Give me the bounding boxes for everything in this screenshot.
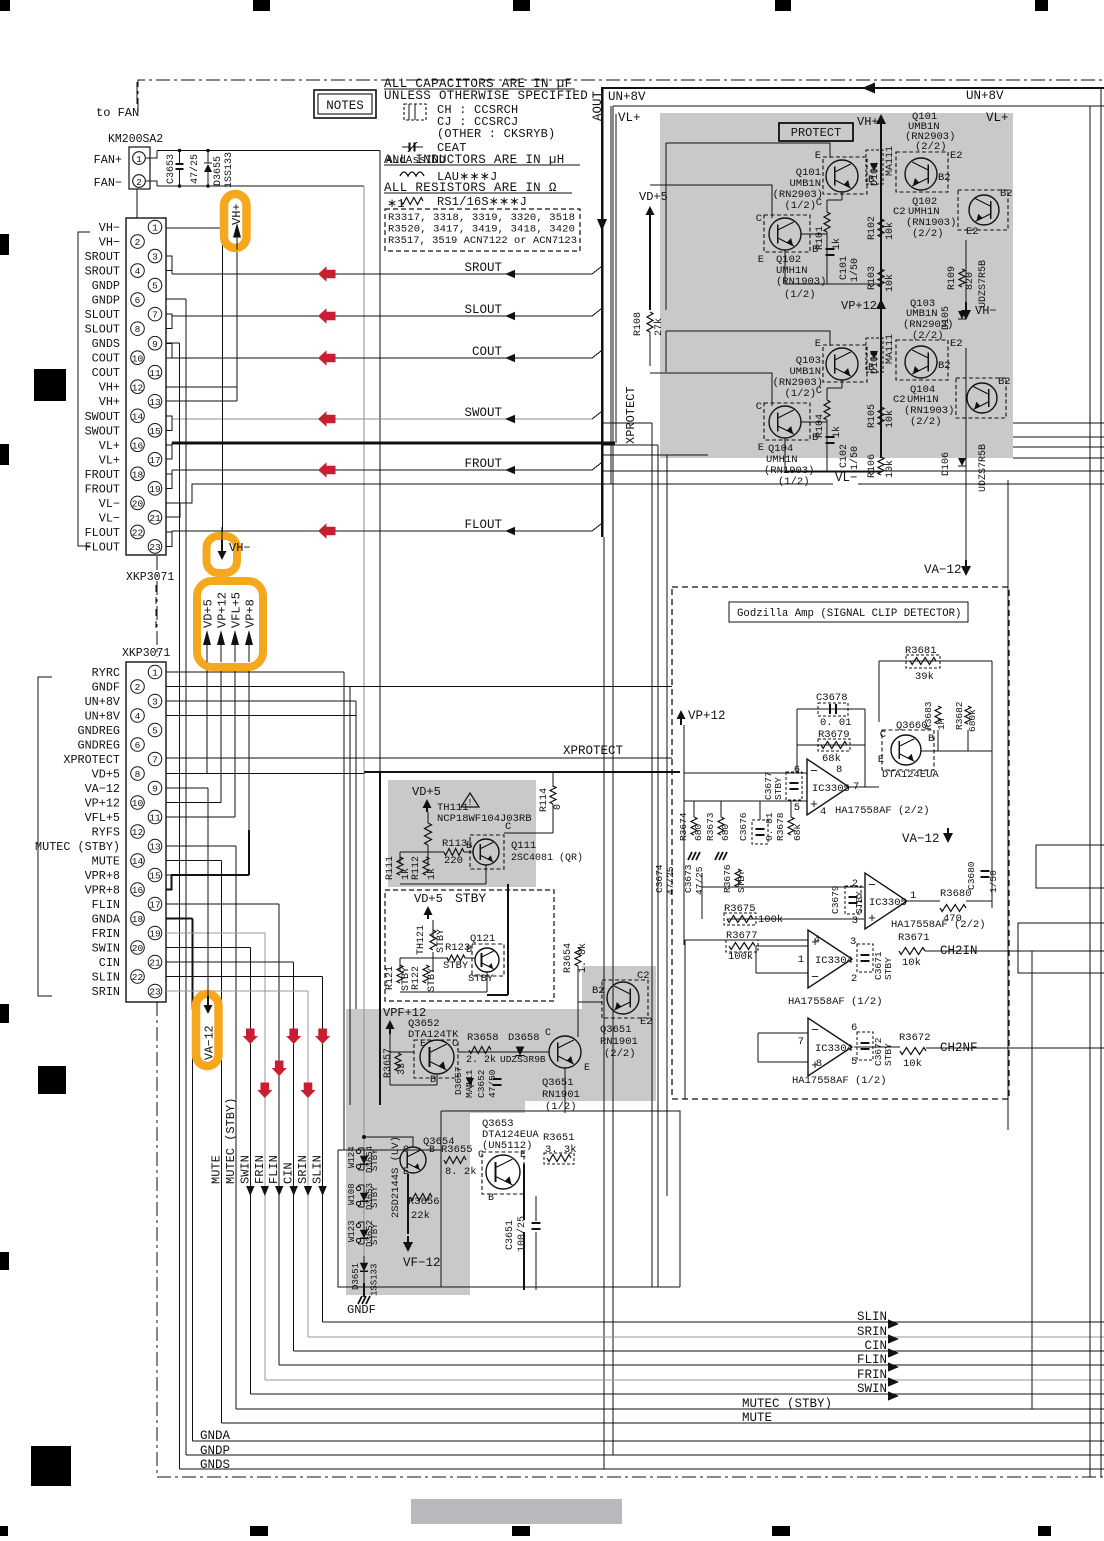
svg-text:R3671: R3671 [898, 932, 930, 944]
svg-text:COUT: COUT [472, 345, 503, 359]
svg-text:FAN+: FAN+ [94, 153, 122, 167]
svg-text:FLIN: FLIN [267, 1155, 281, 1184]
svg-text:STBY: STBY [370, 1149, 380, 1171]
svg-text:VA−12: VA−12 [924, 563, 962, 577]
svg-text:R108: R108 [633, 312, 644, 336]
svg-text:5: 5 [152, 726, 158, 737]
svg-text:GNDS: GNDS [92, 337, 120, 351]
svg-text:−: − [810, 764, 818, 779]
svg-text:NCP18WF104J03RB: NCP18WF104J03RB [437, 813, 532, 825]
svg-text:IC3304: IC3304 [815, 1043, 853, 1055]
bus vertical x615 [615, 114, 617, 443]
svg-text:SWOUT: SWOUT [85, 424, 120, 438]
svg-text:STBY: STBY [468, 973, 494, 985]
svg-text:8: 8 [836, 764, 842, 776]
wire SRIN bottom run [308, 1336, 1104, 1338]
jumper W124 [359, 1147, 365, 1149]
wire FLIN vertical [278, 904, 280, 1365]
wire STBY internals [432, 920, 434, 938]
svg-text:SRIN: SRIN [296, 1155, 310, 1184]
wire SROUT pin stub [166, 256, 172, 274]
svg-text:VFL+5: VFL+5 [230, 592, 244, 628]
svg-text:R3673: R3673 [705, 812, 716, 841]
svg-text:470: 470 [943, 913, 962, 925]
svg-text:PROTECT: PROTECT [791, 126, 841, 140]
transistor Q103 (2/2) [896, 340, 948, 380]
svg-text:2SD2144S (UV): 2SD2144S (UV) [390, 1136, 402, 1218]
gray region protect block [660, 113, 1013, 458]
svg-text:R112: R112 [411, 856, 422, 880]
svg-text:C: C [452, 1039, 458, 1050]
wire vertical to mid block (gray) [363, 186, 365, 772]
svg-text:(2/2): (2/2) [910, 416, 942, 428]
wire SWIN bottom run [250, 1393, 1104, 1395]
svg-text:680k: 680k [967, 709, 978, 732]
svg-text:NOTES: NOTES [326, 99, 364, 113]
svg-text:47/25: 47/25 [189, 154, 201, 184]
wire VL+ row (bold) [172, 442, 615, 445]
svg-text:10k: 10k [884, 274, 896, 292]
svg-text:E2: E2 [950, 150, 963, 162]
svg-text:C: C [505, 821, 511, 833]
svg-text:23: 23 [149, 542, 161, 553]
svg-text:STBY: STBY [370, 1223, 380, 1245]
wire FRIN vertical [264, 933, 266, 1380]
svg-text:HA17558AF (1/2): HA17558AF (1/2) [788, 996, 883, 1008]
svg-text:STBY: STBY [455, 891, 486, 906]
svg-text:680: 680 [693, 824, 704, 841]
wire SWIN vertical [249, 948, 251, 1395]
svg-text:1: 1 [152, 668, 158, 679]
svg-text:VPR+8: VPR+8 [85, 869, 120, 883]
wire CIN vertical [293, 962, 295, 1351]
dashed box godzilla amp [672, 587, 1009, 1099]
svg-text:FRIN: FRIN [253, 1155, 267, 1184]
mute arrows red [243, 1029, 258, 1045]
svg-text:10k: 10k [902, 957, 921, 969]
svg-text:MUTEC (STBY): MUTEC (STBY) [742, 1397, 832, 1411]
svg-text:(OTHER : CKSRYB): (OTHER : CKSRYB) [437, 127, 555, 141]
gray region mid block upper [346, 1009, 656, 1101]
svg-text:STBY: STBY [443, 960, 469, 972]
clip arrow SLOUT (red) [318, 308, 336, 324]
svg-text:GNDREG: GNDREG [78, 724, 120, 738]
svg-text:2: 2 [135, 682, 141, 693]
svg-text:10: 10 [132, 353, 144, 364]
svg-text:STBY: STBY [854, 891, 865, 914]
svg-text:1/50: 1/50 [988, 870, 999, 893]
svg-text:1: 1 [136, 154, 142, 165]
wire COUT row [172, 357, 592, 359]
svg-text:4: 4 [135, 711, 141, 722]
box around Q3654 block [338, 1150, 680, 1287]
svg-text:C3651: C3651 [505, 1220, 516, 1250]
bracket left of XKP3071 [38, 677, 52, 996]
op-amp IC3304 (1/2) upper [808, 930, 852, 988]
svg-text:47/50: 47/50 [487, 1069, 498, 1098]
clip arrow FROUT (red) [318, 462, 336, 478]
border inner top [613, 105, 1104, 107]
wire SWOUT row [172, 418, 592, 420]
wire VH+ bus (bold) [880, 128, 882, 458]
notes capacitor symbol [404, 104, 426, 120]
svg-text:B: B [488, 1193, 494, 1204]
svg-text:17: 17 [149, 900, 160, 911]
svg-text:UDZS7R5B: UDZS7R5B [978, 444, 989, 492]
svg-text:10: 10 [132, 798, 144, 809]
pin 1 VH− [148, 220, 162, 234]
diode D3653 STBY [363, 1185, 365, 1207]
svg-text:VH−: VH− [99, 236, 120, 250]
pin 15 VPR+8 [148, 868, 162, 882]
svg-text:+: + [868, 911, 876, 926]
registration marks (page) [0, 0, 10, 11]
gray region TH111 block [388, 780, 536, 887]
svg-text:SROUT: SROUT [85, 265, 120, 279]
border vertical left outer [603, 537, 605, 1469]
svg-text:2SC4081 (QR): 2SC4081 (QR) [511, 852, 583, 864]
svg-text:HA17558AF (2/2): HA17558AF (2/2) [891, 919, 986, 931]
pin 21 VL− [148, 511, 162, 525]
svg-text:100/25: 100/25 [516, 1216, 528, 1252]
svg-text:MA111: MA111 [885, 334, 896, 364]
svg-text:E: E [758, 254, 764, 266]
op-amp IC3304 (1/2) lower [808, 1018, 852, 1076]
power arrow VF-12 [407, 1174, 409, 1234]
svg-text:GNDA: GNDA [200, 1429, 231, 1443]
svg-text:B: B [430, 1075, 436, 1086]
svg-text:GNDA: GNDA [92, 913, 121, 927]
wire vertical to mid block (black) [379, 151, 381, 773]
svg-text:VA−12: VA−12 [902, 832, 940, 846]
svg-text:VPR+8: VPR+8 [85, 884, 120, 898]
capacitor C3673 47/25 [688, 852, 692, 860]
diode D3654 STBY [363, 1148, 365, 1170]
svg-text:!: ! [467, 798, 472, 808]
svg-text:(1/2): (1/2) [778, 476, 810, 488]
pin 12 VH+ [131, 380, 145, 394]
svg-text:RYFS: RYFS [92, 826, 120, 840]
svg-text:18: 18 [132, 914, 144, 925]
svg-text:10k: 10k [903, 1058, 922, 1070]
svg-text:1/50: 1/50 [849, 258, 861, 282]
wire FLOUT pin stub [166, 531, 172, 532]
pin 12 RYFS [131, 825, 145, 839]
svg-text:11: 11 [149, 813, 161, 824]
svg-text:−: − [868, 878, 876, 893]
svg-text:SLIN: SLIN [92, 971, 120, 985]
svg-text:21: 21 [149, 958, 161, 969]
jumper W108 [359, 1184, 365, 1186]
svg-text:RYRC: RYRC [92, 666, 120, 680]
svg-text:C3676: C3676 [738, 812, 749, 841]
svg-text:39k: 39k [915, 671, 934, 683]
wire SLIN bottom run [323, 1321, 1104, 1323]
svg-text:COUT: COUT [92, 352, 120, 366]
notes ceat symbol [409, 143, 411, 152]
svg-text:21: 21 [149, 513, 161, 524]
svg-text:XPROTECT: XPROTECT [63, 753, 120, 767]
wire SLOUT row [172, 315, 592, 317]
wire protect lower loop [666, 331, 830, 346]
svg-text:VD+5: VD+5 [92, 768, 120, 782]
power arrow VH+ [233, 223, 241, 238]
svg-text:FROUT: FROUT [85, 482, 120, 496]
wire SROUT row [172, 273, 592, 275]
wire SLOUT pin stub [166, 314, 172, 316]
svg-text:GNDS: GNDS [200, 1458, 230, 1472]
clip arrow COUT (red) [318, 350, 336, 366]
pin 22 FLOUT [131, 525, 145, 539]
svg-text:R111: R111 [385, 856, 396, 880]
pin 21 CIN [148, 955, 162, 969]
transistor Q102 (1/2) [764, 215, 810, 252]
transistor Q111 [470, 835, 504, 869]
wire STBY output bold [507, 884, 509, 995]
svg-text:STBY: STBY [736, 870, 747, 893]
pin 13 VH+ [148, 394, 162, 408]
svg-text:FLOUT: FLOUT [85, 526, 120, 540]
svg-text:3: 3 [852, 915, 858, 927]
svg-text:HA17558AF (2/2): HA17558AF (2/2) [835, 805, 930, 817]
svg-text:VH−: VH− [99, 221, 120, 235]
wire protect upper loop [666, 143, 830, 158]
svg-text:27k: 27k [653, 318, 665, 336]
svg-text:R121: R121 [385, 966, 396, 990]
svg-text:STBY: STBY [427, 968, 438, 992]
svg-text:MA111: MA111 [885, 146, 896, 176]
svg-text:+: + [810, 797, 818, 812]
svg-text:VL−: VL− [99, 511, 120, 525]
bus AOUT bold vertical [601, 87, 604, 537]
power arrow VH- down [221, 527, 223, 545]
ground GNDF [363, 1283, 365, 1297]
svg-text:15: 15 [149, 426, 161, 437]
svg-text:D106: D106 [941, 452, 952, 476]
svg-text:D3657: D3657 [453, 1066, 464, 1095]
svg-text:R113: R113 [442, 838, 467, 850]
svg-text:R106: R106 [867, 454, 878, 478]
pin 4 SROUT [131, 264, 145, 278]
wire MUTEC (STBY) bottom run [236, 1408, 1104, 1410]
svg-text:GNDP: GNDP [92, 294, 120, 308]
jumper chain W124 D3654 [363, 772, 365, 1283]
wire right bus [1089, 106, 1091, 1477]
svg-text:SROUT: SROUT [85, 250, 120, 264]
svg-text:R3520, 3417, 3419, 3418, 3420: R3520, 3417, 3419, 3418, 3420 [388, 224, 575, 236]
svg-text:STBY: STBY [773, 777, 784, 800]
op-amp IC3305 (2/2) upper [807, 759, 849, 815]
pin 4 UN+8V [131, 709, 145, 723]
wire to FAN [136, 82, 138, 104]
svg-text:2: 2 [852, 878, 858, 890]
gray region Q3651 right [582, 966, 656, 1058]
pin 15 SWOUT [148, 423, 162, 437]
gray bar bottom [411, 1499, 622, 1524]
svg-text:R114: R114 [539, 788, 550, 812]
pin 3 SROUT [148, 249, 162, 263]
svg-text:22: 22 [132, 528, 144, 539]
highlight ring VH- [207, 536, 238, 573]
pin 3 UN+8V [148, 694, 162, 708]
svg-text:FAN−: FAN− [94, 176, 122, 190]
svg-text:Q3651: Q3651 [600, 1024, 632, 1036]
wire VH- up [166, 228, 223, 545]
svg-text:RN1901: RN1901 [542, 1089, 580, 1101]
svg-text:9: 9 [152, 339, 158, 350]
svg-text:5: 5 [794, 802, 800, 814]
svg-text:STBY: STBY [370, 1186, 380, 1208]
svg-text:VP+12: VP+12 [688, 709, 726, 723]
wire q3651 base [577, 966, 579, 1037]
wire SLIN vertical [322, 977, 324, 1323]
svg-text:100k: 100k [728, 951, 753, 963]
svg-text:SLOUT: SLOUT [85, 323, 120, 337]
svg-text:W123: W123 [347, 1220, 357, 1242]
svg-text:SWOUT: SWOUT [464, 406, 502, 420]
pin 17 FLIN [148, 897, 162, 911]
svg-text:47/25: 47/25 [694, 866, 705, 895]
svg-text:16: 16 [132, 885, 144, 896]
power arrow VA-12 down [207, 990, 209, 998]
capacitor C101 1/50 [826, 248, 835, 250]
svg-text:FLOUT: FLOUT [464, 518, 502, 532]
svg-text:B2: B2 [938, 360, 951, 372]
svg-text:16: 16 [132, 440, 144, 451]
gray region mid block lower [346, 1101, 470, 1295]
svg-text:C3679: C3679 [830, 885, 841, 914]
pin 22 SLIN [131, 970, 145, 984]
svg-text:VP+12: VP+12 [841, 299, 877, 313]
svg-text:15: 15 [149, 871, 161, 882]
svg-text:VD+5: VD+5 [412, 785, 441, 799]
svg-text:SROUT: SROUT [464, 261, 502, 275]
svg-text:12: 12 [132, 827, 144, 838]
wire FLOUT row [172, 530, 592, 532]
svg-text:GNDP: GNDP [92, 279, 120, 293]
svg-text:9: 9 [152, 784, 158, 795]
pin 2 GNDF [131, 680, 145, 694]
svg-text:VL+: VL+ [99, 453, 120, 467]
title box godzilla [729, 602, 968, 622]
svg-text:C102: C102 [839, 444, 850, 468]
svg-text:1: 1 [152, 223, 158, 234]
bracket left of output header [78, 232, 90, 546]
svg-text:VF−12: VF−12 [403, 1256, 441, 1270]
svg-text:−: − [811, 1023, 819, 1038]
svg-text:1k: 1k [831, 426, 843, 438]
svg-text:VL−: VL− [835, 471, 858, 485]
transistor Q101 (1/2) [823, 157, 867, 194]
svg-text:C3680: C3680 [966, 861, 977, 890]
svg-text:R3517, 3519 ACN7122 or ACN7123: R3517, 3519 ACN7122 or ACN7123 [388, 235, 577, 247]
wire MUTE vertical [220, 861, 222, 1424]
svg-text:C3652: C3652 [476, 1069, 487, 1098]
svg-text:(1/2): (1/2) [784, 200, 816, 212]
pin 1 FAN+ [133, 152, 146, 165]
pin 5 GNDP [148, 278, 162, 292]
svg-text:UDZS7R5B: UDZS7R5B [978, 260, 989, 308]
wire q3653 bus [535, 1196, 537, 1221]
capacitor C102 1/50 [826, 436, 835, 438]
wire GNDP bottom run [186, 1454, 1104, 1456]
svg-text:D3655: D3655 [213, 156, 224, 186]
svg-text:68k: 68k [792, 824, 803, 841]
svg-text:R3678: R3678 [775, 812, 786, 841]
svg-text:11: 11 [149, 368, 161, 379]
wire godzilla internal [879, 660, 992, 662]
svg-text:CIN: CIN [99, 956, 120, 970]
svg-text:0. 01: 0. 01 [820, 717, 852, 729]
pin 19 FRIN [148, 926, 162, 940]
transistor Q3651 (1/2) [549, 1036, 581, 1068]
svg-text:FLIN: FLIN [857, 1353, 887, 1367]
svg-text:8: 8 [135, 769, 141, 780]
wire COUT pin stub [166, 344, 172, 359]
svg-text:1/50: 1/50 [849, 446, 861, 470]
pin 2 VH− [131, 235, 145, 249]
svg-text:VH+: VH+ [857, 115, 879, 129]
jumper W123 [359, 1221, 365, 1223]
svg-text:C3673: C3673 [683, 864, 694, 893]
wire VD+5 feed thick [364, 771, 680, 773]
svg-text:VA−12: VA−12 [85, 782, 120, 796]
svg-text:VP+12: VP+12 [216, 592, 230, 628]
svg-text:E: E [878, 754, 884, 766]
svg-text:−: − [811, 970, 819, 985]
pin 14 MUTE [131, 854, 145, 868]
pin 6 GNDP [131, 293, 145, 307]
border vertical left inner [612, 106, 614, 1455]
svg-text:RN1901: RN1901 [600, 1036, 638, 1048]
svg-text:SLIN: SLIN [857, 1310, 887, 1324]
clip arrow SROUT (red) [318, 266, 336, 282]
svg-text:Q111: Q111 [511, 840, 536, 852]
svg-text:UNLESS OTHERWISE SPECIFIED: UNLESS OTHERWISE SPECIFIED [384, 89, 588, 103]
svg-text:R3672: R3672 [899, 1032, 931, 1044]
svg-text:17: 17 [149, 455, 160, 466]
svg-text:B2: B2 [1000, 188, 1013, 200]
svg-text:VL+: VL+ [986, 111, 1009, 125]
svg-text:CIN: CIN [864, 1339, 887, 1353]
svg-text:R3683: R3683 [923, 701, 934, 730]
svg-text:C2: C2 [893, 394, 906, 406]
svg-text:XPROTECT: XPROTECT [563, 744, 624, 758]
svg-text:2: 2 [136, 177, 142, 188]
svg-text:MA111: MA111 [464, 1069, 475, 1098]
svg-text:UN+8V: UN+8V [608, 90, 646, 104]
svg-text:VH+: VH+ [230, 203, 244, 225]
svg-text:(1/2): (1/2) [784, 388, 816, 400]
svg-text:3: 3 [152, 697, 158, 708]
svg-text:(2/2): (2/2) [915, 141, 947, 153]
pin 11 VFL+5 [148, 810, 162, 824]
svg-text:19: 19 [149, 929, 161, 940]
svg-text:1M: 1M [936, 718, 947, 730]
svg-text:R3651: R3651 [543, 1132, 575, 1144]
svg-text:FRIN: FRIN [857, 1368, 887, 1382]
wire GNDS bottom run [179, 1468, 1104, 1470]
label PROTECT box [779, 123, 853, 141]
svg-text:18: 18 [132, 469, 144, 480]
wire XPROTECT row [166, 757, 672, 759]
svg-text:C3678: C3678 [816, 692, 848, 704]
notes resistor symbol [401, 198, 423, 205]
svg-text:10k: 10k [884, 222, 896, 240]
svg-text:(2/2): (2/2) [604, 1048, 636, 1060]
svg-text:R103: R103 [867, 266, 878, 290]
svg-text:R3317, 3318, 3319, 3320, 3518: R3317, 3318, 3319, 3320, 3518 [388, 212, 575, 224]
